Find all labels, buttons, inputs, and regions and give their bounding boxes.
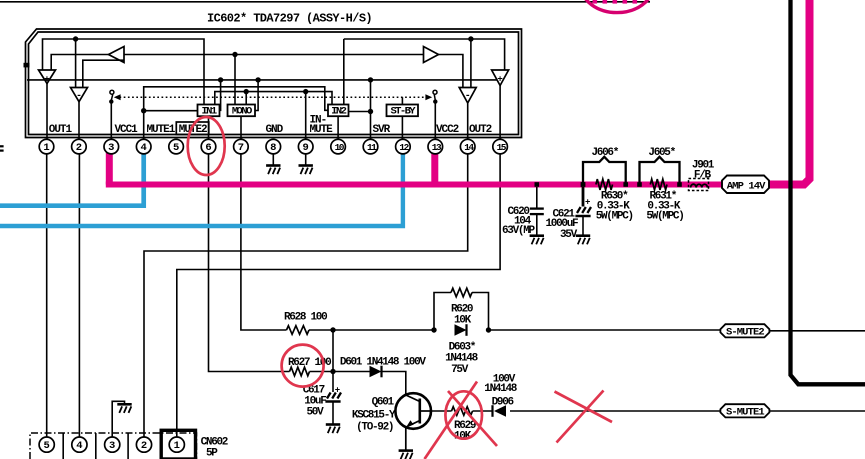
svg-text:1N4148: 1N4148: [445, 353, 479, 365]
red ellipse fragment top: [582, 0, 653, 13]
svg-text:Q601: Q601: [372, 397, 395, 409]
wire CN602-3 to ground: [112, 401, 124, 437]
svg-text:S-MUTE2: S-MUTE2: [726, 326, 764, 338]
resistor R630: [596, 179, 633, 222]
svg-text:J606*: J606*: [592, 147, 619, 159]
switch SW1 above pin 3: [109, 90, 114, 139]
wire LA-left top line to A1/A2/IN1: [43, 36, 205, 104]
svg-text:D601 1N4148 100V: D601 1N4148 100V: [340, 356, 427, 368]
capacitor C621: [546, 182, 592, 241]
svg-text:IN2: IN2: [331, 106, 346, 118]
wire ST-BY pin 12 (cyan): [0, 149, 403, 226]
pin 15 of IC602: [493, 139, 508, 154]
wire LC long feedback line: [27, 77, 497, 110]
svg-text:AMP 14V: AMP 14V: [727, 181, 766, 193]
pin 2 of IC602: [72, 139, 87, 154]
svg-text:75V: 75V: [451, 364, 469, 376]
svg-text:3: 3: [108, 142, 114, 154]
svg-text:4: 4: [141, 142, 147, 154]
svg-text:+: +: [335, 385, 340, 395]
pin 13 of IC602: [428, 139, 443, 154]
svg-text:(TO-92): (TO-92): [356, 422, 393, 434]
pin 8 of IC602: [266, 139, 281, 154]
wire LB T1 base to T2 base: [124, 52, 424, 105]
svg-text:R620: R620: [451, 303, 473, 315]
net label S-MUTE1: [720, 404, 769, 418]
svg-text:KSC815-Y: KSC815-Y: [352, 410, 396, 422]
pin 10 of IC602: [331, 139, 346, 154]
svg-text:IC602* TDA7297 (ASSY-H/S): IC602* TDA7297 (ASSY-H/S): [207, 11, 372, 25]
red circle annotation around R629: [445, 391, 482, 438]
CN602 pin 4: [72, 437, 87, 452]
pin name SVR: [373, 124, 391, 136]
svg-text:MUTE1: MUTE1: [147, 124, 176, 136]
net label AMP 14V: [722, 176, 769, 194]
block ST-BY to pin 12: [387, 97, 419, 139]
red circle annotation around pin 6: [188, 117, 225, 175]
svg-text:J605*: J605*: [648, 147, 675, 159]
capacitor C620: [502, 182, 544, 237]
wire R629 to D906: [473, 410, 493, 412]
wire pin2 to CN602-4: [78, 154, 80, 437]
buffer T2 right-pointing: [424, 47, 439, 63]
jumper J605: [637, 147, 682, 187]
switch SW2 above pin 13: [433, 90, 437, 139]
svg-text:5P: 5P: [206, 447, 218, 459]
wire pin14 to CN602-2: [144, 154, 468, 437]
CN602 pin 2: [136, 437, 151, 452]
svg-text:5: 5: [44, 440, 50, 452]
pin name MUTE1: [147, 124, 176, 136]
block IN1 to pin 6: [198, 105, 220, 140]
thin border line top edge: [0, 1, 650, 3]
svg-text:GND: GND: [266, 124, 284, 136]
resistor R620 jumper bracket: [431, 288, 491, 332]
IC602 part number label: [207, 11, 372, 25]
pin 4 of IC602: [136, 139, 151, 154]
svg-text:6: 6: [205, 142, 211, 154]
pin name IN-MUTE: [310, 114, 334, 136]
svg-text:5W(MPC): 5W(MPC): [646, 210, 683, 222]
wire thick bus right side: [791, 0, 865, 384]
pin name OUT2: [469, 124, 492, 136]
capacitor C617: [303, 372, 341, 424]
block MONO to pin 7: [228, 105, 256, 140]
svg-text:OUT2: OUT2: [469, 124, 492, 136]
pin 11 of IC602: [363, 139, 378, 154]
pin 9 of IC602: [298, 139, 313, 154]
svg-text:1: 1: [43, 142, 49, 154]
svg-text:MUTE: MUTE: [310, 124, 334, 136]
red circle annotation around R627: [282, 345, 324, 387]
svg-text:4: 4: [76, 440, 82, 452]
connector CN602 dash-dot outline: [30, 433, 197, 459]
ground under C621: [576, 236, 590, 245]
svg-text:-: -: [76, 91, 82, 102]
svg-text:S-MUTE1: S-MUTE1: [726, 406, 764, 418]
wire T1 output to A1: [51, 55, 108, 71]
wire LE line IN1/MONO/pin9/IN2: [215, 89, 332, 139]
CN602 pin 3: [105, 437, 120, 452]
svg-text:MONO: MONO: [232, 106, 252, 118]
wire pin7 down to R628: [241, 154, 287, 330]
wire S-MUTE2 to right edge: [769, 330, 865, 332]
resistor R631: [646, 179, 683, 222]
red X annotation on S-MUTE1 wire: [555, 391, 613, 443]
pin 7 of IC602: [234, 139, 249, 154]
wire R628 to D603 node: [309, 327, 434, 371]
svg-text:5: 5: [173, 142, 179, 154]
block IN2 to pin 10: [328, 105, 349, 140]
CN602 cell dividers: [63, 433, 128, 459]
svg-text:OUT1: OUT1: [49, 124, 73, 136]
resistor R628: [284, 312, 327, 335]
pin 5 of IC602: [169, 139, 184, 154]
wire pin1 to CN602-5: [46, 154, 48, 437]
wire pin15 to CN602-1: [177, 154, 500, 437]
svg-text:35V: 35V: [560, 229, 578, 241]
wire pin6 down to R627: [209, 154, 290, 372]
wire D601 to Q601 collector: [383, 372, 406, 396]
stub on left border: [24, 63, 30, 68]
op-amp A2 (-) output to pin 2: [71, 88, 88, 140]
svg-text:D906: D906: [492, 397, 514, 409]
pin name GND: [266, 124, 284, 136]
ground at pin 8: [266, 154, 280, 174]
svg-text:9: 9: [303, 142, 309, 154]
pin 6 of IC602: [201, 139, 216, 154]
op-amp A4 (+) output to pin 15: [492, 70, 509, 139]
svg-text:1: 1: [174, 440, 180, 452]
transistor Q601: [352, 393, 431, 450]
svg-text:F/B: F/B: [694, 169, 712, 181]
wire T1 base to A2 input: [83, 60, 124, 87]
wire D603 to S-MUTE2: [489, 329, 721, 331]
IC U-IC602 outer body outline: [26, 29, 522, 138]
wire S-MUTE1 to right edge: [769, 410, 865, 412]
svg-text:VCC1: VCC1: [115, 124, 139, 136]
svg-text:-: -: [465, 91, 471, 102]
dotted standby control line: [114, 94, 432, 100]
op-amp A1 (+) output to pin 1: [39, 70, 56, 139]
pin name VCC1: [115, 124, 139, 136]
wire VCC1 pin 3 drop (magenta): [106, 150, 113, 185]
resistor R629 (deleted): [452, 407, 476, 443]
pin 3 of IC602: [104, 139, 119, 154]
CN602 pin1 thick box: [161, 430, 195, 459]
svg-text:R628 100: R628 100: [284, 312, 327, 324]
ground at pin 9: [299, 154, 313, 174]
net label S-MUTE2: [720, 324, 769, 338]
op-amp A3 (-) output to pin 14: [459, 88, 476, 140]
diode D603: [445, 324, 479, 376]
ground under C620: [530, 236, 544, 245]
svg-text:+: +: [585, 198, 590, 208]
svg-text:7: 7: [238, 142, 244, 154]
wire Q601 base to R629: [431, 410, 452, 412]
pin 1 of IC602: [39, 139, 54, 154]
wire LA-right top line IN2 to A4: [344, 36, 505, 104]
svg-text:SVR: SVR: [373, 124, 391, 136]
pin name MUTE2: [179, 124, 207, 136]
resistor R627: [288, 357, 331, 376]
left edge marks: [0, 146, 4, 150]
wire D906 to S-MUTE1: [510, 410, 720, 412]
diode D906: [484, 373, 518, 417]
wire T2 output to A3: [439, 55, 463, 88]
svg-text:3: 3: [109, 440, 115, 452]
ground under C617: [326, 425, 340, 434]
svg-text:10K: 10K: [454, 315, 472, 327]
buffer T1 left-pointing: [109, 47, 125, 63]
pin name VCC2: [436, 124, 459, 136]
diode D601: [340, 356, 427, 377]
svg-text:VCC2: VCC2: [436, 124, 459, 136]
ferrite bead J901 F/B: [689, 160, 715, 191]
pin 14 of IC602: [460, 139, 475, 154]
wire LD mute1 line to IN2: [141, 87, 328, 140]
pin name OUT1: [49, 124, 73, 136]
wire VCC2 pin 13 drop (magenta): [431, 150, 438, 185]
jumper J606: [581, 147, 628, 187]
svg-text:1N4148: 1N4148: [484, 383, 518, 395]
CN602 reference label: [201, 436, 228, 459]
svg-text:5W(MPC): 5W(MPC): [596, 210, 633, 222]
ground at CN602 pin 3: [117, 404, 131, 413]
svg-text:+: +: [497, 75, 502, 85]
CN602 pin 5: [39, 437, 54, 452]
red X annotation over R629: [425, 382, 498, 459]
block MUTE2 label box: [176, 122, 209, 135]
wire AMP 14V rail (magenta): [106, 182, 722, 188]
svg-text:2: 2: [76, 142, 82, 154]
pin 12 of IC602: [396, 139, 411, 154]
svg-text:8: 8: [270, 142, 276, 154]
svg-text:50V: 50V: [307, 407, 325, 419]
svg-text:ST-BY: ST-BY: [390, 106, 416, 118]
svg-text:2: 2: [141, 440, 147, 452]
svg-text:IN1: IN1: [201, 106, 216, 118]
wire MUTE1 pin 4 (cyan): [0, 149, 144, 206]
wire R627 to D601: [310, 369, 370, 374]
CN602 pin 1: [169, 437, 184, 452]
wire rail right segment to top edge (magenta): [769, 0, 810, 185]
wire SVR pin 11 riser: [349, 80, 374, 139]
ground under Q601 emitter: [399, 451, 413, 459]
